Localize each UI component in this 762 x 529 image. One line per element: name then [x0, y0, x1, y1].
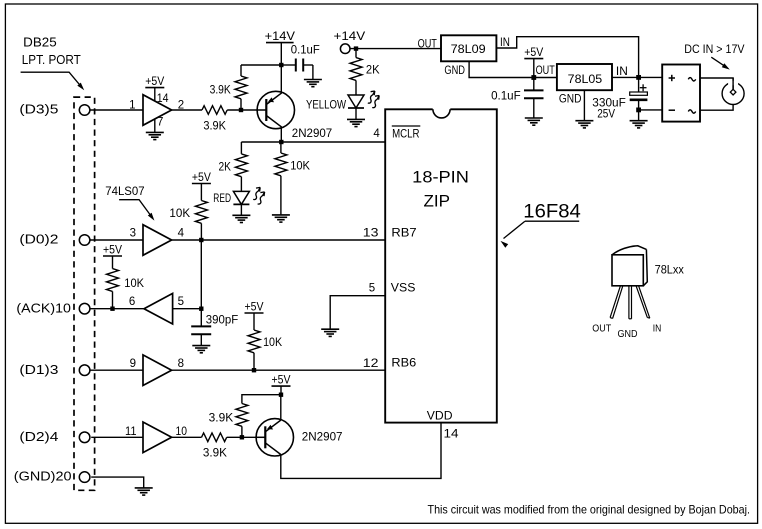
node RB7 junction	[199, 238, 203, 242]
leader arrow to DB25 connector	[21, 72, 85, 90]
pin number 4	[178, 228, 185, 240]
svg-text:6: 6	[129, 296, 135, 308]
svg-text:IN: IN	[616, 66, 628, 78]
wire MCLR node to IC pin 4	[281, 141, 385, 143]
svg-text:+5V: +5V	[245, 301, 264, 313]
wire rail to emitter	[280, 65, 282, 93]
node MCLR junction	[279, 140, 283, 144]
svg-text:YELLOW: YELLOW	[306, 100, 346, 112]
power +5V D0 pull-up	[192, 172, 211, 201]
wire 0.1uF to ground	[533, 98, 535, 118]
node 390pF junction	[199, 307, 203, 311]
svg-text:5: 5	[369, 283, 375, 295]
ground LPT GND	[135, 488, 153, 495]
node 2K tap junction	[354, 46, 358, 50]
pin number 13	[363, 227, 379, 239]
wire VSS pin 5 to ground	[330, 296, 385, 330]
power +14V transistor rail	[265, 29, 295, 65]
svg-text:14: 14	[157, 93, 169, 105]
ground RED LED	[232, 215, 250, 222]
svg-text:18-PIN: 18-PIN	[412, 168, 469, 187]
wire D0 pin to buffer input	[90, 239, 143, 241]
svg-text:OUT: OUT	[536, 65, 555, 77]
pin number 9	[130, 358, 136, 370]
node +5V Q2 junction	[279, 393, 283, 397]
svg-text:RB6: RB6	[391, 358, 416, 370]
ground 330uF	[630, 121, 648, 128]
wire MCLR node to RED branch	[241, 142, 281, 154]
svg-text:78L09: 78L09	[451, 44, 486, 56]
wire Q2 collector to VDD pin 14	[281, 423, 441, 479]
pin label RB6	[391, 358, 416, 370]
wire buffer E output	[172, 436, 202, 438]
svg-text:10K: 10K	[290, 161, 310, 173]
wire 78L09 IN to raw DC node	[496, 37, 638, 78]
svg-text:3: 3	[130, 228, 136, 240]
svg-text:3.9K: 3.9K	[210, 85, 231, 97]
resistor 10K MCLR pulldown	[275, 142, 310, 215]
svg-text:12: 12	[363, 358, 379, 370]
svg-text:This circuit was modified from: This circuit was modified from the origi…	[428, 503, 751, 517]
wire RB7 to buffer C vertical	[200, 240, 202, 309]
svg-text:0.1uF: 0.1uF	[491, 91, 521, 103]
svg-text:(D3)5: (D3)5	[19, 103, 58, 117]
power +5V ACK pull-up	[103, 244, 122, 268]
svg-text:3.9K: 3.9K	[209, 413, 234, 425]
svg-text:RB7: RB7	[391, 228, 416, 240]
wire RED LED cathode to ground	[240, 204, 242, 215]
wire 3.9K to base node	[227, 109, 257, 111]
wire ACK pin to buffer output	[90, 308, 144, 310]
svg-text:11: 11	[125, 426, 137, 438]
power +5V D1 pull-up	[245, 301, 264, 330]
svg-text:VDD: VDD	[427, 411, 453, 423]
wire 390pF to ground	[200, 334, 202, 345]
svg-text:IN: IN	[500, 37, 510, 49]
leader arrow 74LS07 to buffer B	[119, 200, 154, 221]
package drawing 78Lxx TO-92	[610, 246, 684, 319]
svg-text:GND: GND	[444, 65, 465, 77]
svg-text:7: 7	[157, 116, 163, 128]
wire buffer C input to RB7 tap	[173, 308, 202, 310]
svg-text:MCLR: MCLR	[392, 126, 420, 140]
ground 78L05	[575, 121, 593, 128]
wire capacitor to ground	[303, 65, 313, 80]
part label 16F84 with leader	[501, 201, 581, 248]
pin number 1	[129, 99, 135, 111]
svg-text:2N2907: 2N2907	[302, 432, 343, 444]
svg-text:3.9K: 3.9K	[203, 448, 227, 460]
pin number 2	[178, 99, 184, 111]
svg-text:74LS07: 74LS07	[105, 186, 144, 198]
svg-text:+5V: +5V	[272, 375, 291, 387]
svg-text:2K: 2K	[219, 162, 232, 174]
pin number 11	[125, 426, 137, 438]
svg-text:IN: IN	[653, 323, 662, 335]
ground buffer A	[146, 132, 164, 139]
port pin label (D2)4	[19, 430, 58, 444]
transistor Q1 2N2907	[257, 91, 332, 140]
pin number 8	[178, 358, 184, 370]
power +5V rail node	[524, 47, 543, 78]
pin label OUT 78L09	[418, 39, 437, 51]
connector DC jack	[722, 78, 744, 105]
wire D2 pin to buffer input	[91, 436, 143, 438]
LED RED	[213, 187, 264, 204]
ground YELLOW LED	[347, 119, 365, 126]
pin label GND TO-92	[618, 328, 638, 340]
pin number 14 (VDD)	[444, 429, 460, 441]
capacitor 330uF 25V electrolytic	[592, 77, 647, 120]
svg-text:LPT. PORT: LPT. PORT	[22, 53, 81, 67]
connector pin (D0)2	[79, 235, 90, 246]
capacitor 0.1uF (+5V rail)	[491, 90, 543, 102]
buffer 74LS07 unit B	[143, 225, 172, 256]
svg-text:8: 8	[178, 358, 184, 370]
port pin label (D0)2	[19, 233, 58, 247]
svg-text:10: 10	[176, 426, 188, 438]
DB25 connector dashed outline	[74, 97, 95, 490]
pin number 7	[157, 116, 163, 128]
svg-text:DC IN > 17V: DC IN > 17V	[684, 44, 745, 56]
svg-text:390pF: 390pF	[206, 314, 238, 326]
pin number 5	[178, 296, 184, 308]
wire 78L05 IN to raw DC node	[612, 76, 639, 78]
ground 390pF	[192, 346, 210, 353]
svg-text:3.9K: 3.9K	[203, 121, 226, 133]
svg-text:+5V: +5V	[145, 76, 164, 88]
port pin label (D1)3	[19, 363, 58, 377]
wire raw DC to bridge +	[639, 76, 663, 78]
wire +5V node to 0.1uF	[533, 78, 535, 91]
pin label MCLR with overline	[392, 126, 421, 140]
connector pin (D3)5	[79, 105, 90, 116]
capacitor 390pF	[191, 314, 238, 334]
resistor 10K ACK pull-up	[107, 269, 145, 309]
wire 78L09 GND to +5V rail	[469, 61, 534, 77]
svg-text:ZIP: ZIP	[424, 192, 451, 211]
wire 78L05 GND to ground	[583, 90, 585, 121]
pin label OUT TO-92	[592, 323, 611, 335]
buffer 74LS07 unit D	[143, 355, 172, 386]
wire +14V terminal to 78L09 OUT	[350, 48, 441, 50]
connector pin (GND)20	[79, 472, 90, 483]
bridge rectifier	[662, 65, 700, 122]
svg-text:(D2)4: (D2)4	[19, 430, 58, 444]
node Q2 base junction	[240, 435, 244, 439]
resistor 2K YELLOW LED	[350, 49, 380, 95]
wire +5V node to 78L05 OUT	[534, 77, 557, 79]
wire GND pin to ground	[91, 477, 144, 488]
wire minus node to bridge	[639, 109, 663, 111]
svg-text:1: 1	[129, 99, 135, 111]
svg-text:(GND)20: (GND)20	[14, 470, 72, 484]
svg-text:+5V: +5V	[524, 47, 543, 59]
pin label IN TO-92	[653, 323, 662, 335]
note credit text	[428, 503, 751, 517]
pin label VSS	[391, 283, 416, 295]
node raw DC junction	[636, 75, 641, 80]
resistor 3.9K Q2 pull-up	[209, 395, 281, 438]
svg-text:2N2907: 2N2907	[292, 128, 332, 140]
svg-text:4: 4	[178, 228, 185, 240]
resistor 10K D0 pull-up	[169, 201, 207, 241]
wire buffer B output to IC pin 13	[172, 239, 386, 241]
svg-text:78L05: 78L05	[568, 74, 603, 86]
wire rail to capacitor	[281, 64, 296, 66]
pin number 10	[176, 426, 188, 438]
svg-text:25V: 25V	[597, 109, 615, 121]
wire +5V to Q2 emitter	[280, 395, 282, 420]
ground 0.1uF rail	[525, 118, 543, 125]
pin number 12	[363, 358, 379, 370]
pin number 4 (MCLR)	[373, 128, 380, 140]
svg-text:14: 14	[444, 429, 460, 441]
wire bridge + to jack	[700, 78, 733, 89]
pin label IN 78L05	[616, 66, 628, 78]
node +5V junction	[531, 75, 536, 80]
svg-text:5: 5	[178, 296, 184, 308]
wire +14V rail left	[241, 64, 281, 66]
svg-text:DB25: DB25	[23, 36, 57, 50]
pin label GND 78L05	[559, 94, 582, 106]
svg-text:2K: 2K	[366, 65, 380, 77]
IC label 74LS07	[105, 186, 144, 198]
ground 0.1uF rail cap	[304, 80, 322, 87]
svg-text:78Lxx: 78Lxx	[655, 265, 685, 277]
svg-text:9: 9	[130, 358, 136, 370]
port pin label (GND)20	[14, 470, 72, 484]
resistor 3.9K series D2	[202, 433, 228, 460]
regulator U3 78L09	[441, 35, 496, 61]
node minus junction	[636, 108, 641, 113]
svg-text:GND: GND	[618, 328, 638, 340]
pin number 6	[129, 296, 135, 308]
LED YELLOW	[306, 91, 379, 112]
pin number 14	[157, 93, 169, 105]
pin label IN 78L09	[500, 37, 510, 49]
resistor 3.9K pull-up to +14V	[210, 65, 247, 110]
svg-text:10K: 10K	[169, 208, 190, 220]
buffer 74LS07 unit C (reversed)	[144, 293, 173, 324]
pin label GND 78L09	[444, 65, 465, 77]
svg-text:(ACK)10: (ACK)10	[16, 301, 71, 315]
pin number 5 (VSS)	[369, 283, 375, 295]
buffer 74LS07 unit E	[143, 422, 172, 453]
wire 330uF to minus node	[638, 100, 640, 110]
svg-text:+5V: +5V	[192, 172, 211, 184]
svg-text:13: 13	[363, 227, 379, 239]
wire D3 pin to buffer input	[90, 109, 143, 111]
connector pin (D1)3	[79, 365, 90, 376]
ground 10K pulldown	[272, 215, 290, 222]
node label DB25 LPT PORT	[22, 36, 81, 68]
pin label VDD	[427, 411, 453, 423]
svg-text:(D0)2: (D0)2	[19, 233, 58, 247]
port pin label (D3)5	[19, 103, 58, 117]
wire D1 pin to buffer input	[90, 369, 143, 371]
capacitor 0.1uF (14V rail)	[291, 45, 320, 72]
svg-text:RED: RED	[213, 193, 231, 205]
node label DC IN > 17V	[684, 44, 745, 56]
wire junction to 390pF	[200, 309, 202, 327]
wire YELLOW LED cathode to ground	[355, 108, 357, 119]
svg-text:+14V: +14V	[265, 29, 295, 43]
svg-text:4: 4	[373, 128, 380, 140]
IC U2 16F84 18-PIN ZIP socket	[385, 108, 497, 423]
wire buffer A pin 7 to ground	[154, 119, 156, 133]
svg-text:GND: GND	[559, 94, 582, 106]
svg-text:+5V: +5V	[103, 244, 122, 256]
terminal +14V output	[334, 29, 366, 54]
port pin label (ACK)10	[16, 301, 71, 315]
svg-text:OUT: OUT	[418, 39, 437, 51]
node ACK pull-up junction	[110, 307, 114, 311]
connector pin (D2)4	[79, 432, 90, 443]
power +5V buffer A	[145, 76, 164, 101]
ground VSS	[321, 329, 339, 336]
svg-text:OUT: OUT	[592, 323, 611, 335]
svg-text:10K: 10K	[124, 278, 144, 290]
svg-text:(D1)3: (D1)3	[19, 363, 58, 377]
buffer 74LS07 unit A	[143, 95, 172, 126]
wire minus node to ground	[638, 110, 640, 121]
pin number 3	[130, 228, 136, 240]
wire Q1 collector to MCLR node	[280, 128, 282, 142]
resistor 10K D1 pull-up	[248, 330, 282, 370]
pin label RB7	[391, 228, 416, 240]
svg-text:VSS: VSS	[391, 283, 416, 295]
svg-text:16F84: 16F84	[523, 201, 581, 223]
leader arrow DC IN to jack	[711, 57, 730, 69]
power +5V Q2	[272, 375, 291, 395]
resistor 3.9K series D3	[202, 106, 227, 133]
transistor Q2 2N2907	[256, 419, 342, 456]
wire 3.9K to Q2 base	[227, 436, 256, 438]
pin label OUT 78L05	[536, 65, 555, 77]
svg-text:+14V: +14V	[334, 29, 366, 43]
node base T1 junction	[239, 108, 243, 112]
wire buffer A output	[172, 109, 202, 111]
wire bridge - to jack	[700, 105, 733, 111]
node RB6 junction	[252, 368, 256, 372]
connector pin (ACK)10	[79, 303, 90, 314]
svg-text:10K: 10K	[263, 337, 282, 349]
node +14V rail junction	[279, 63, 283, 67]
regulator U4 78L05	[557, 64, 612, 90]
resistor 2K RED LED	[219, 154, 248, 192]
wire buffer D output to IC pin 12	[172, 369, 386, 371]
svg-text:0.1uF: 0.1uF	[291, 45, 320, 57]
